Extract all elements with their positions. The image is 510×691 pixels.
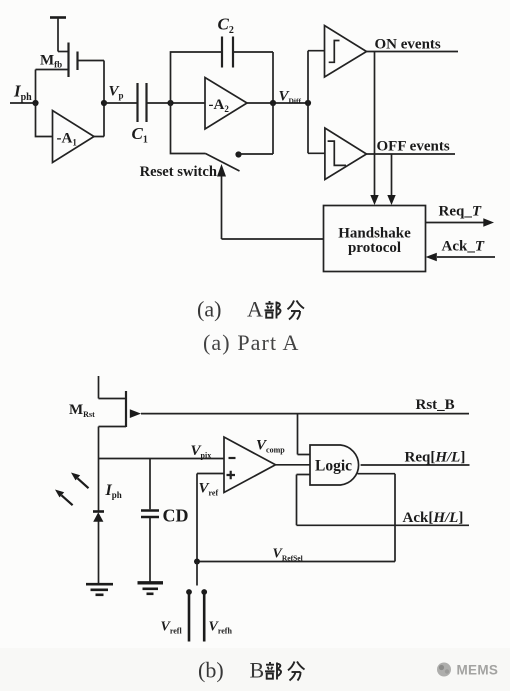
wire Vp to C1 [104,102,138,104]
node Vp [101,100,107,106]
bottom faint band [0,648,510,691]
svg-text:Ack[H/L]: Ack[H/L] [403,510,464,526]
svg-text:A: A [247,297,263,322]
feedback wire from handshake [222,238,324,240]
op-amp A1 [53,111,95,163]
Req_T output [426,222,485,224]
svg-text:(b): (b) [198,658,224,683]
svg-text:(a): (a) [197,297,221,322]
svg-text:protocol: protocol [348,240,401,256]
wire A2 output (VDiff) [247,102,308,104]
svg-text:Req_T: Req_T [439,204,482,220]
VDiff branch vertical [307,51,309,154]
comparator output wire [276,464,311,466]
wire contact to output node [239,103,274,154]
stub Vrefl [188,592,191,642]
Ack_T input [437,256,495,258]
transistor M_Rst [99,391,127,512]
wire C1 to A2 input node [147,102,206,104]
svg-text:ON events: ON events [375,37,441,53]
V_ref wire [197,474,224,562]
logic gate [310,445,359,485]
capacitor C2 [222,37,233,68]
reset switch branch wires [171,103,206,154]
V_pix wire [99,458,225,460]
svg-text:MEMS: MEMS [457,663,499,678]
light arrow 1 [78,478,89,488]
node (input junction) [32,100,38,106]
svg-text:Reset switch: Reset switch [140,164,217,180]
svg-text:OFF events: OFF events [377,139,450,155]
wire to A1 input [36,103,53,137]
hanzi BU [265,301,281,319]
stub Vrefh [203,592,206,642]
Req[H/L] line [361,464,470,466]
svg-text:B: B [250,658,265,683]
capacitor C1 [138,83,147,122]
hanzi FEN [288,301,305,320]
svg-text:Rst_B: Rst_B [416,397,455,413]
ground (CD) [138,581,164,584]
svg-text:CD: CD [163,506,189,526]
svg-text:Ack_T: Ack_T [442,239,485,255]
V_RefSel branch [197,474,395,562]
ground (photodiode) [86,583,113,586]
MEMS logo [437,663,451,677]
transistor M_fb [36,43,105,104]
comparator B [224,437,276,493]
svg-text:Logic: Logic [315,458,352,475]
node VDiff right [305,100,311,106]
selector common stub [196,562,198,586]
node VRefSel [194,559,200,565]
ON drop arrow to handshake [374,52,376,196]
contact Vrefh [201,589,207,595]
svg-text:(a) Part A: (a) Part A [203,330,300,355]
capacitor CD branch [149,459,151,510]
op-amp A2 [205,78,247,130]
handshake protocol block [324,206,426,272]
light arrow 2 [62,495,73,505]
comparator OFF (hysteresis) [308,128,455,180]
C2 feedback loop wires [171,52,274,103]
M_Rst drain stub [98,376,100,399]
Rst_B line [141,413,469,415]
supply T-bar (VDD of M_fb) [50,16,66,19]
Ack feedback into gate [297,475,470,526]
reset switch contact [235,151,241,157]
input wire I_ph [10,102,36,104]
M_Rst gate arrow [130,409,141,418]
node VDiff left [270,100,276,106]
photodiode [93,510,104,513]
reset control arrow [221,175,223,239]
OFF drop arrow to handshake [391,154,393,196]
comparator ON (hysteresis) [308,26,458,78]
node A2 input [167,100,173,106]
contact Vrefl [186,589,192,595]
Rst_B drop to logic [298,414,311,455]
reset switch blade [206,154,240,172]
svg-text:Req[H/L]: Req[H/L] [405,450,466,466]
wire A1 output to Vp [94,103,104,137]
